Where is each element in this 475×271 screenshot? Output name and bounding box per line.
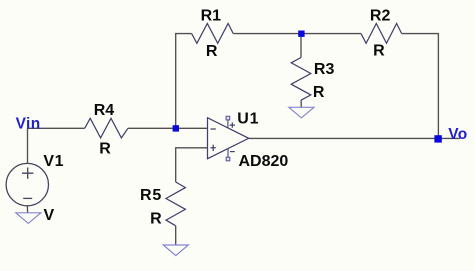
svg-text:R: R: [206, 43, 218, 60]
node A junction: [173, 125, 179, 131]
wire Vin to R4: [28, 127, 85, 129]
wire R1 to R2 (through node B): [233, 33, 361, 35]
wire R4 to op-amp inverting input: [128, 127, 208, 129]
wire R3 to ground: [300, 100, 302, 107]
wire node A up to R1: [176, 34, 192, 129]
svg-text:R1: R1: [201, 7, 222, 24]
svg-text:V: V: [44, 207, 55, 224]
wire R2 to output net: [402, 34, 439, 139]
wire R5 to ground: [175, 226, 177, 245]
ground (R5): [163, 245, 188, 256]
pin V+: [227, 120, 229, 128]
node Vo junction: [434, 135, 441, 142]
voltage source V1: [6, 153, 64, 224]
svg-text:R4: R4: [94, 102, 115, 119]
svg-text:R3: R3: [314, 61, 335, 78]
node B junction: [298, 31, 304, 37]
svg-text:R: R: [150, 211, 162, 228]
wire op-amp output to Vo: [249, 137, 460, 139]
wire V1 to ground: [26, 206, 28, 213]
svg-text:V1: V1: [43, 153, 64, 170]
svg-text:U1: U1: [237, 111, 259, 128]
wire Vin down to V1: [27, 128, 29, 163]
svg-text:R: R: [99, 141, 111, 158]
resistor R4: [85, 102, 128, 158]
svg-text:R: R: [373, 42, 385, 59]
svg-text:R2: R2: [370, 7, 391, 24]
svg-text:Vin: Vin: [16, 116, 41, 133]
ground (V1): [16, 213, 41, 224]
resistor R1: [192, 7, 234, 60]
ground (R3): [289, 107, 314, 118]
svg-text:AD820: AD820: [239, 153, 289, 170]
wire node B to R3: [300, 34, 302, 58]
resistor R2: [361, 7, 402, 59]
svg-text:R: R: [313, 84, 325, 101]
op-amp U1: [208, 111, 289, 171]
svg-text:Vo: Vo: [448, 126, 467, 143]
svg-text:R5: R5: [140, 187, 162, 204]
resistor R3: [291, 58, 334, 102]
wire op-amp noninverting input to R5: [176, 148, 208, 182]
resistor R5: [140, 182, 185, 228]
pin V-: [227, 149, 229, 158]
